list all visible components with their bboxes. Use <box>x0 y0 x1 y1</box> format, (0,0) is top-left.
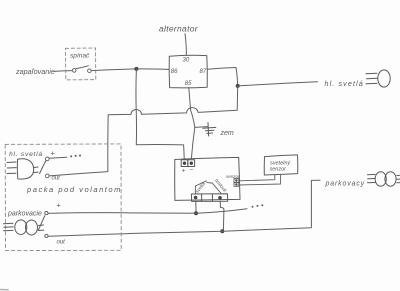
wire W8: parking + rail across page <box>48 209 247 214</box>
lever hmlove <box>207 183 221 194</box>
svg-text:out: out <box>57 240 66 246</box>
wire stalk + stub <box>49 157 66 158</box>
senzor connector <box>234 179 239 187</box>
wire strip left contact down to junction C <box>195 201 197 213</box>
node dots continuation <box>252 204 264 208</box>
dashed box: stalk controls <box>5 144 121 251</box>
svg-text:alternator: alternator <box>159 24 199 34</box>
switch S1 dashed box <box>66 48 96 80</box>
wire junction A down to + terminal <box>136 69 184 158</box>
wire junction B to hl.svetla lamp <box>238 82 318 86</box>
relay U1 box <box>169 55 207 88</box>
lamp headlight right <box>366 70 390 87</box>
svg-text:87: 87 <box>200 69 207 75</box>
lamp headlight stalk <box>7 159 38 179</box>
node junction A on ignition line <box>134 67 138 71</box>
switch S1 contacts and lever <box>72 69 76 73</box>
switch stalk headlights <box>46 157 50 161</box>
wire strip right contact down with hop to junction D <box>220 201 224 231</box>
svg-text:−: − <box>189 167 193 174</box>
svg-text:hl. svetlá: hl. svetlá <box>325 79 364 88</box>
node junction C <box>194 211 198 215</box>
svg-text:out: out <box>52 176 61 182</box>
switch stalk parking <box>45 212 48 215</box>
wire pin 87 to junction B <box>207 68 237 86</box>
svg-text:zapaľovanie: zapaľovanie <box>15 67 55 76</box>
wire ground tap <box>195 126 208 129</box>
svg-text:+: + <box>57 201 62 210</box>
switch strip <box>191 194 227 202</box>
svg-text:packa pod volantom: packa pod volantom <box>26 185 122 194</box>
node junction B <box>236 84 240 88</box>
wire senzor connector to senzor box (1) <box>239 175 275 181</box>
node junction D <box>220 229 224 233</box>
wire S1 to relay pin 86 <box>91 69 169 71</box>
wire relay pin 85 down to - terminal <box>189 88 195 159</box>
svg-text:hl. svetlá: hl. svetlá <box>9 151 43 158</box>
wire: junction B down, line A left with hops, down and to stalk switch out <box>49 86 238 176</box>
switch module box <box>175 157 240 200</box>
wire W9: parking out rail to parkovacy lamp <box>48 180 320 236</box>
svg-text:+: + <box>182 168 186 175</box>
wire senzor connector to senzor box (2) <box>239 175 281 185</box>
svg-text:30: 30 <box>183 58 190 64</box>
svg-text:86: 86 <box>171 69 178 75</box>
senzor box <box>264 155 298 175</box>
svg-text:spínač: spínač <box>70 53 90 60</box>
ground symbol <box>203 123 216 137</box>
wire from zapalovanie to switch S1 <box>54 70 72 73</box>
lever svetla <box>195 181 206 194</box>
svg-text:85: 85 <box>185 81 192 87</box>
lamp parking stalk <box>4 220 44 235</box>
svg-text:parkovacy: parkovacy <box>325 181 366 188</box>
wire alternator label to pin 30 <box>185 34 186 55</box>
scan smudge bottom left <box>0 289 8 291</box>
lamp parking right <box>368 172 400 186</box>
terminal block + - <box>181 160 194 167</box>
svg-text:senzor: senzor <box>270 167 288 173</box>
svg-text:parkovacie: parkovacie <box>7 211 42 218</box>
svg-text:+: + <box>51 149 56 158</box>
svg-text:zem: zem <box>220 130 234 137</box>
